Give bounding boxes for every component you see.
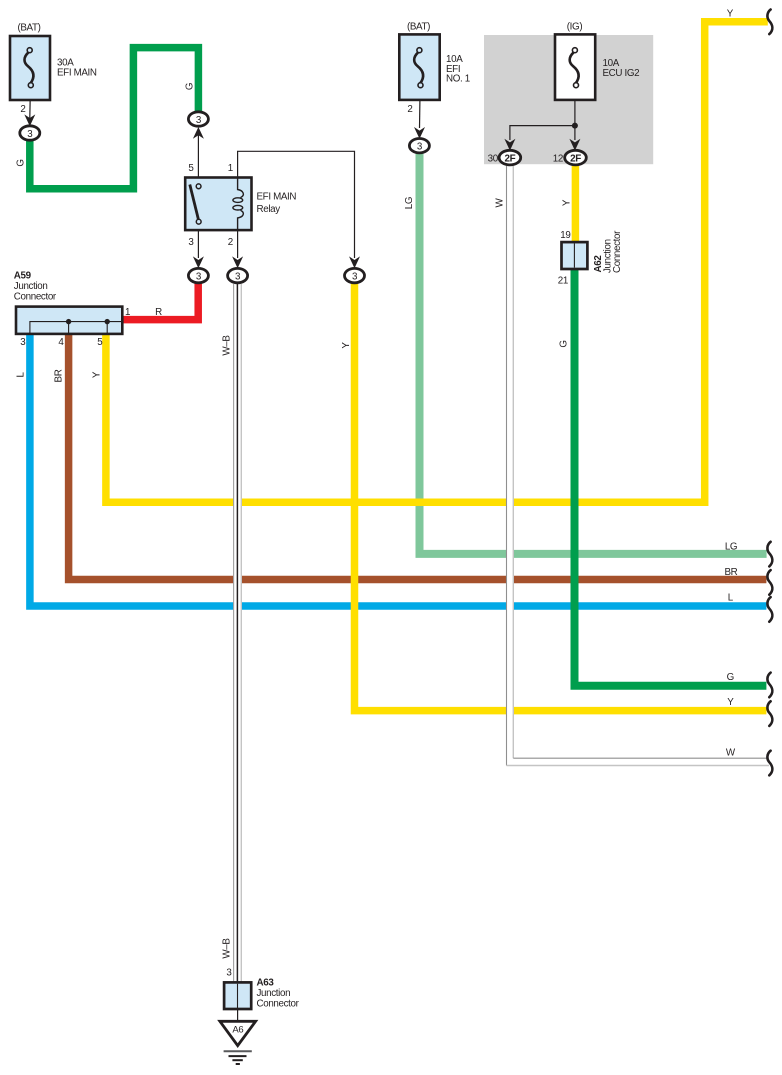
wire fuse F2 pin2 to node 3 [419,88,422,129]
svg-text:EFI MAIN: EFI MAIN [57,68,97,79]
junction connector A62 [562,242,588,269]
junction connector A59 [16,307,122,334]
svg-text:30: 30 [488,153,499,164]
svg-text:(BAT): (BAT) [407,22,430,33]
svg-text:W–B: W–B [222,335,233,356]
wire branch to terminal 12 2F [574,126,576,140]
arrow into node below relay pin2 [232,256,243,268]
wire relay U1 pin3 down to node 3 [197,230,199,258]
svg-text:Connector: Connector [257,998,300,1009]
svg-text:Y: Y [562,199,573,206]
fuse F1 30A EFI MAIN [10,36,50,100]
arrow into node below F2 [414,127,425,139]
svg-text:19: 19 [560,230,570,241]
node 3 right of relay [345,268,365,282]
svg-text:5: 5 [97,337,103,348]
svg-text:G: G [185,83,196,90]
svg-text:G: G [559,340,570,347]
node 3 below relay pin2 [228,268,248,282]
svg-text:21: 21 [558,276,568,287]
ECU block shading [484,35,653,164]
svg-text:3: 3 [20,337,26,348]
svg-text:R: R [155,307,162,318]
fuse F2 10A EFI NO.1 [399,34,439,100]
wire relay U1 pin1 to node 3 right [238,151,355,258]
relay U1 EFI MAIN Relay [185,178,251,231]
node 3 above relay [188,112,208,126]
svg-text:3: 3 [196,271,202,282]
svg-text:L: L [15,372,26,378]
continuation squiggle LG [767,542,772,567]
arrow into node below F1 [24,114,35,126]
continuation squiggle G [767,673,772,698]
wire relay U1 pin2 down to node 3 [237,230,239,258]
svg-text:A63: A63 [257,978,275,989]
wire Y yellow from A59 pin5 up right corner to top edge [106,22,768,503]
svg-text:4: 4 [58,337,64,348]
svg-text:A59: A59 [14,271,32,282]
arrow into node below relay pin3 [193,256,204,268]
svg-text:Connector: Connector [14,291,57,302]
continuation squiggle W [767,751,772,776]
wire Y yellow from relay right node down across to right edge [355,282,767,711]
svg-text:LG: LG [404,197,415,209]
ground symbol A6 [220,1021,256,1064]
svg-text:3: 3 [352,271,358,282]
svg-text:3: 3 [188,237,194,248]
svg-text:2: 2 [20,104,25,115]
svg-text:BR: BR [54,369,65,382]
svg-text:Y: Y [92,371,103,378]
svg-text:ECU IG2: ECU IG2 [603,68,640,79]
wire W-B white-black from relay pin2 node down to A63 [234,284,242,983]
svg-text:Relay: Relay [257,204,281,215]
terminal 2F pin12 [565,150,587,165]
svg-text:W: W [495,197,506,207]
continuation squiggle Y top [767,10,772,35]
svg-text:2F: 2F [504,153,515,164]
svg-text:2F: 2F [570,153,581,164]
svg-text:3: 3 [226,968,232,979]
svg-text:LG: LG [725,542,737,553]
switch blade [190,185,199,220]
svg-text:2: 2 [228,237,233,248]
wire Y yellow from terminal 12 2F to A62 [572,165,580,244]
svg-text:NO. 1: NO. 1 [446,74,470,85]
wire G green from A62 down across to right edge [575,268,767,686]
svg-text:G: G [15,159,26,166]
wire relay U1 pin5 up to node 3 [197,135,199,178]
wire fuse F3 to junction dot [574,87,576,126]
wire BR from A59 pin4 across to right edge [69,334,767,580]
svg-text:(IG): (IG) [567,22,583,33]
junction dot IG splice [572,123,578,129]
fuse F3 10A ECU IG2 [555,34,595,100]
svg-text:12: 12 [553,153,563,164]
wire L blue from A59 pin3 across to right edge [30,334,767,606]
node 3 below F1 [20,126,40,140]
junction connector A63 [224,982,251,1009]
THIN-LINES [30,87,575,1021]
svg-text:L: L [728,593,734,604]
arrow into terminal 30 2F [504,139,515,151]
terminal 2F pin30 [499,150,521,165]
wire LG from fuse F2 node across to right edge [420,152,767,554]
arrow up into node 3 above relay [193,127,204,139]
continuation squiggle BR [767,570,772,595]
svg-text:2: 2 [407,104,412,115]
wire fuse F1 pin2 to node [29,88,32,119]
continuation squiggle L [767,597,772,622]
svg-text:W: W [726,748,736,759]
wire W white from terminal 30 2F down across to right edge [507,166,770,766]
svg-text:3: 3 [196,115,202,126]
node 3 below F2 [409,139,429,153]
svg-text:Y: Y [341,342,352,349]
svg-text:5: 5 [188,163,194,174]
wire R red relay pin3 node to A59 pin1 [122,282,198,320]
svg-text:W–B: W–B [222,938,233,959]
svg-text:3: 3 [417,142,423,153]
svg-text:Connector: Connector [612,230,623,273]
svg-text:G: G [727,672,734,683]
svg-text:3: 3 [27,129,33,140]
svg-text:EFI MAIN: EFI MAIN [257,192,297,203]
svg-text:BR: BR [724,567,737,578]
svg-text:A6: A6 [232,1025,243,1036]
node 3 below relay pin3 [188,268,208,282]
arrow into node right of relay [349,256,360,268]
arrow into terminal 12 2F [569,139,580,151]
wire A63 to ground [237,1009,239,1021]
svg-text:1: 1 [228,163,233,174]
svg-text:Y: Y [727,697,734,708]
svg-text:1: 1 [125,307,130,318]
svg-text:(BAT): (BAT) [17,23,40,34]
wire G green from fuse F1 node to relay pin5 node [30,48,199,189]
svg-text:3: 3 [235,271,241,282]
continuation squiggle Y lower [767,701,772,726]
wire branch to terminal 30 2F [510,126,575,140]
svg-text:Y: Y [727,9,734,20]
coil [238,178,244,198]
